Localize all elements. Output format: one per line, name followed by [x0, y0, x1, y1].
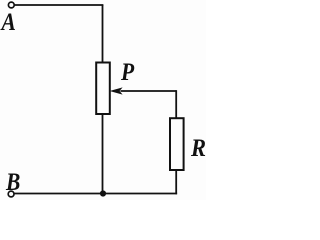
wire P bottom vertical [102, 114, 104, 194]
svg-text:A: A [0, 9, 16, 37]
terminal A [8, 2, 14, 8]
svg-text:B: B [5, 169, 20, 197]
resistor R [170, 118, 184, 170]
label B [5, 169, 20, 197]
wiper arrow [110, 87, 177, 94]
potentiometer P [96, 63, 110, 115]
wire wiper vertical to R [175, 90, 177, 118]
label R [190, 135, 206, 162]
wire top vertical corner to P [102, 5, 104, 63]
wire R bottom vertical [175, 170, 177, 194]
terminal B [8, 191, 14, 197]
junction node [100, 190, 106, 196]
label P [120, 59, 135, 87]
wire bottom horizontal [14, 193, 177, 195]
label A [0, 9, 16, 37]
svg-text:P: P [120, 59, 135, 87]
svg-text:R: R [190, 135, 206, 162]
wire top horizontal A to corner [14, 4, 103, 6]
